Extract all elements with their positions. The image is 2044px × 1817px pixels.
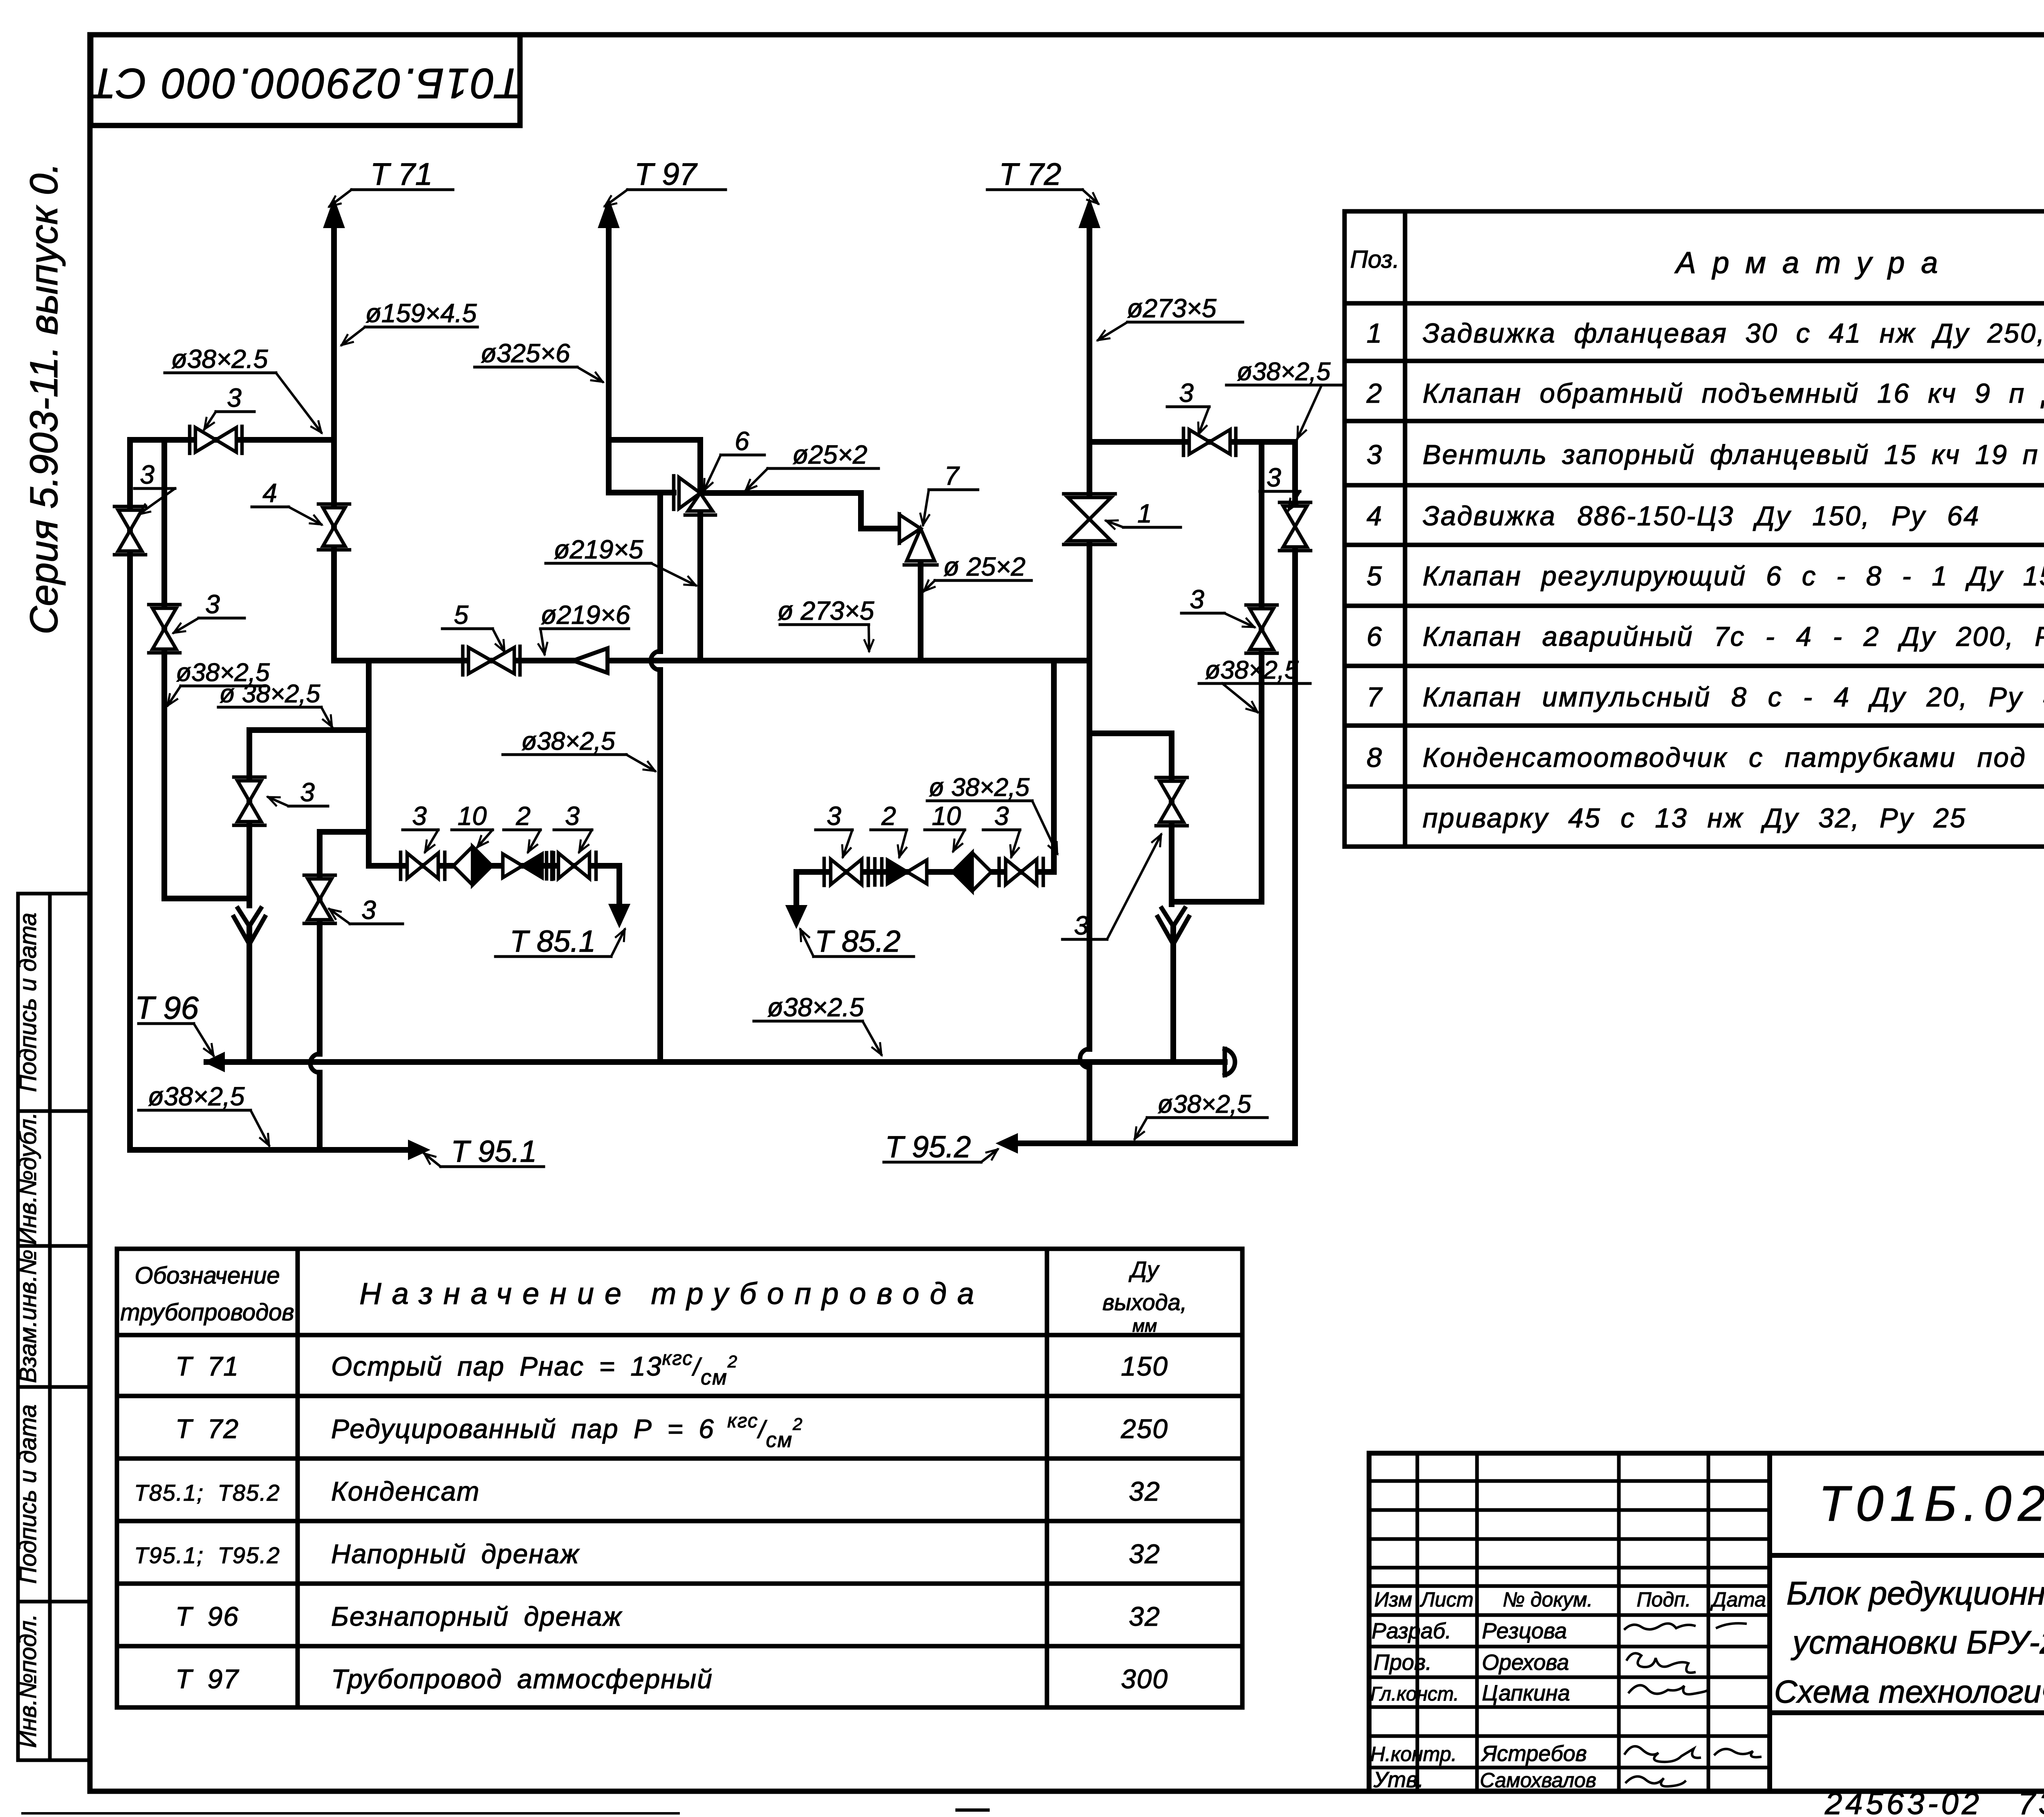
- svg-text:Вентиль запорный фланцевый 15: Вентиль запорный фланцевый 15 кч 19 п 1 …: [1423, 439, 2044, 470]
- svg-text:Серия 5.903-11. выпуск 0.: Серия 5.903-11. выпуск 0.: [22, 163, 66, 634]
- device 10 steam trap (diamond): [453, 847, 492, 885]
- svg-text:Т 95.1: Т 95.1: [451, 1134, 537, 1168]
- svg-text:3: 3: [1179, 378, 1194, 408]
- valve 3 callout: [1062, 835, 1161, 940]
- svg-text:№ докум.: № докум.: [1503, 1588, 1593, 1611]
- wire valve7 stem: [918, 565, 923, 661]
- svg-text:ø325×6: ø325×6: [481, 338, 570, 368]
- svg-text:Инв.№подл.: Инв.№подл.: [15, 1614, 41, 1748]
- svg-text:32: 32: [1129, 1476, 1160, 1506]
- wire T72 lower drop: [1087, 661, 1092, 1143]
- row Т97: [175, 1664, 1168, 1694]
- node T85.2 label: [800, 924, 914, 958]
- wire T97 riser: [609, 223, 674, 493]
- valve 3 callout (drain x782): [329, 895, 403, 925]
- svg-text:3: 3: [227, 383, 242, 412]
- svg-text:Клапан аварийный 7с - 4 - 2: Клапан аварийный 7с - 4 - 2 Ду 200, Ру 4…: [1423, 621, 2044, 652]
- svg-text:2: 2: [1366, 378, 1383, 409]
- pipe size ø 38×2,5 T85.2 drop: [927, 773, 1057, 854]
- svg-text:Т 97: Т 97: [175, 1664, 239, 1694]
- valve 7 callout: [923, 461, 978, 525]
- wire right drain drop x=3086: [1177, 442, 1262, 902]
- svg-text:1: 1: [1137, 499, 1152, 528]
- valve 5 callout: [442, 600, 504, 652]
- svg-text:5: 5: [454, 600, 468, 630]
- row 4: [1367, 501, 2044, 536]
- svg-text:Арматура: Арматура: [1674, 246, 1954, 280]
- svg-text:3: 3: [300, 777, 315, 807]
- svg-text:Клапан импульсный 8 с - 4: Клапан импульсный 8 с - 4 Ду 20, Ру 40: [1423, 682, 2044, 712]
- arrow T97 up: [599, 200, 619, 227]
- svg-text:Подп.: Подп.: [1636, 1588, 1691, 1611]
- signatures scribbles: [1625, 1623, 1760, 1786]
- pipe size ø325×6: [475, 338, 603, 382]
- svg-text:3: 3: [994, 801, 1009, 831]
- svg-text:Т 85.1: Т 85.1: [510, 924, 596, 958]
- pipe size ø273×5 main header: [778, 596, 874, 651]
- row Т72: [175, 1410, 1168, 1452]
- valve 3 (poz.3) globe (hourglass) at 782,2200: [304, 875, 335, 923]
- svg-text:5: 5: [1367, 561, 1383, 591]
- svg-text:Т 72: Т 72: [175, 1414, 239, 1444]
- svg-text:Клапан регулирующий 6 с - 8: Клапан регулирующий 6 с - 8 - 1 Ду 150, …: [1423, 561, 2044, 591]
- valve 3 callout: [983, 801, 1020, 857]
- svg-text:300: 300: [1121, 1664, 1168, 1694]
- node T96 label: [135, 990, 213, 1055]
- funnel left: [234, 917, 265, 944]
- valve 3 callout: [816, 801, 852, 857]
- svg-text:ø38×2,5: ø38×2,5: [1237, 358, 1331, 386]
- row 8 line 1: [1367, 742, 2026, 773]
- valve 3 callout: [1167, 378, 1209, 434]
- wire funnel outlet right: [1170, 929, 1176, 1062]
- svg-text:Т01Б.029000.000 СТ: Т01Б.029000.000 СТ: [87, 60, 522, 107]
- valve 4 callout: [252, 478, 321, 524]
- arrow T96 left: [205, 1053, 224, 1071]
- svg-text:4: 4: [1367, 501, 1383, 531]
- svg-text:Конденсат: Конденсат: [331, 1476, 480, 1506]
- svg-text:3: 3: [1266, 463, 1281, 492]
- svg-text:Т 96: Т 96: [175, 1601, 239, 1631]
- svg-text:Пров.: Пров.: [1374, 1650, 1432, 1675]
- svg-text:Взам.инв.№: Взам.инв.№: [15, 1250, 41, 1383]
- wire drain vertical x=610: [247, 730, 252, 905]
- svg-text:Изм: Изм: [1374, 1588, 1412, 1611]
- funnel arrow right: [1162, 908, 1185, 926]
- svg-text:3: 3: [412, 801, 427, 831]
- wire left drop x=318: [127, 440, 133, 1150]
- svg-text:Самохвалов: Самохвалов: [1480, 1769, 1596, 1792]
- svg-text:Трубопровод атмосферный: Трубопровод атмосферный: [331, 1664, 713, 1694]
- svg-text:Ястребов: Ястребов: [1481, 1741, 1587, 1766]
- check cone reducer on main header: [573, 648, 607, 673]
- valve 3 (poz.3) globe (hourglass) at 402,1538: [149, 605, 180, 653]
- pipe size ø38×2,5 top-right: [1226, 358, 1345, 438]
- wire drop x=902: [366, 661, 372, 866]
- valve 7 impulse valve (poz.7): [899, 514, 937, 565]
- PIPETABLE: [117, 1249, 1242, 1707]
- paper edge bottom: [22, 1812, 679, 1815]
- svg-text:Т 71: Т 71: [370, 157, 433, 192]
- row 3: [1367, 439, 2044, 470]
- valve 3 (poz.3) globe (hourglass) at 318,1298: [114, 506, 146, 555]
- valve 3 (poz.3) gate (bowtie) at 528,1076: [190, 426, 242, 453]
- svg-text:Н.контр.: Н.контр.: [1370, 1743, 1457, 1765]
- svg-text:Т 72: Т 72: [999, 157, 1061, 192]
- wire valve6 outlet: [697, 514, 703, 661]
- valve 3 callout: [204, 383, 254, 429]
- wire T72 riser: [1087, 223, 1092, 661]
- svg-text:Орехова: Орехова: [1482, 1650, 1569, 1675]
- svg-text:ø38×2.5: ø38×2.5: [767, 993, 864, 1022]
- left signature table grid: [1369, 1453, 1770, 1791]
- arrow T72 up: [1080, 200, 1099, 227]
- svg-text:ø38×2,5: ø38×2,5: [1205, 656, 1299, 684]
- wire T85.1 row y=2118: [369, 866, 619, 906]
- svg-text:Назначение трубопровода: Назначение трубопровода: [359, 1277, 985, 1311]
- svg-text:Обозначение: Обозначение: [134, 1262, 280, 1289]
- jump x=1615 over main header: [651, 651, 660, 670]
- valve 3 callout: [1260, 463, 1300, 510]
- svg-text:ø 38×2,5: ø 38×2,5: [929, 773, 1030, 802]
- svg-text:24563-02 73 Формат А3: 24563-02 73 Формат А3: [1824, 1786, 2044, 1817]
- svg-text:Схема технологическая: Схема технологическая: [1774, 1674, 2044, 1709]
- valve 1 callout: [1106, 499, 1181, 528]
- sig table header: [1374, 1588, 1766, 1611]
- svg-text:Цапкина: Цапкина: [1482, 1681, 1570, 1705]
- wire T85.2 row y=2133: [796, 872, 1054, 907]
- valve 3 (poz.3) gate (bowtie) at 1034,2118: [401, 852, 445, 879]
- svg-text:Клапан обратный подъемный 16 к: Клапан обратный подъемный 16 кч 9 п Ду 3…: [1423, 378, 2044, 409]
- wire funnel outlet left: [247, 928, 252, 1062]
- valve 6 callout: [704, 426, 764, 491]
- valve 3 callout: [1181, 585, 1254, 627]
- title block grid: [1369, 1453, 2044, 1791]
- svg-text:ø38×2,5: ø38×2,5: [148, 1082, 245, 1111]
- row Т95: [134, 1539, 1160, 1569]
- svg-text:Утв.: Утв.: [1373, 1768, 1424, 1792]
- svg-text:10: 10: [457, 801, 487, 831]
- svg-text:ø 273×5: ø 273×5: [778, 596, 874, 625]
- svg-text:ø 25×2: ø 25×2: [943, 552, 1025, 581]
- svg-text:150: 150: [1121, 1351, 1168, 1381]
- svg-text:Ду: Ду: [1128, 1257, 1160, 1282]
- wire drain x=1615: [657, 493, 663, 1062]
- valve 3 callout: [134, 460, 175, 514]
- pipe size ø38×2,5 left: [168, 659, 270, 706]
- arrow T95.1 right: [409, 1141, 428, 1159]
- svg-text:ø38×2,5: ø38×2,5: [521, 727, 615, 755]
- arrow T95.2 left: [997, 1134, 1017, 1152]
- wire T95.2 line: [1017, 1140, 1295, 1146]
- pipe size ø38×2,5 T95.1: [139, 1082, 269, 1145]
- ARMTABLE: [1345, 211, 2044, 847]
- svg-text:250: 250: [1121, 1414, 1168, 1444]
- svg-text:трубопроводов: трубопроводов: [120, 1299, 294, 1326]
- valve 3 (poz.3) gate (bowtie) at 2498,2133: [999, 858, 1043, 885]
- svg-text:4: 4: [262, 478, 277, 508]
- pipe size ø219×5: [546, 535, 696, 585]
- pipe size ø159×4.5: [342, 298, 477, 345]
- valve 3 (poz.3) globe (hourglass) at 610,1960: [234, 777, 265, 825]
- svg-text:6: 6: [1367, 621, 1383, 652]
- row 6: [1367, 615, 2044, 665]
- svg-text:Конденсатоотводчик с патрубк: Конденсатоотводчик с патрубками под: [1423, 742, 2026, 773]
- svg-text:ø219×5: ø219×5: [554, 535, 643, 564]
- svg-text:2: 2: [881, 801, 896, 831]
- svg-text:Т 95.2: Т 95.2: [885, 1130, 971, 1164]
- svg-text:2: 2: [515, 801, 531, 831]
- wire drain jog y=1786: [249, 727, 369, 733]
- svg-text:7: 7: [944, 461, 960, 491]
- svg-text:ø159×4.5: ø159×4.5: [365, 298, 477, 328]
- svg-text:Т85.1; Т85.2: Т85.1; Т85.2: [134, 1480, 280, 1506]
- svg-text:32: 32: [1129, 1539, 1160, 1569]
- svg-text:Т 85.2: Т 85.2: [815, 924, 901, 958]
- svg-text:Разраб.: Разраб.: [1372, 1619, 1451, 1643]
- row Т96: [175, 1601, 1161, 1631]
- svg-text:3: 3: [565, 801, 580, 831]
- wire valve6 bypass: [609, 440, 700, 493]
- pipe size ø38×2,5 T95.2: [1135, 1090, 1267, 1139]
- armature table grid: [1345, 211, 2044, 847]
- svg-text:ø38×2.5: ø38×2.5: [171, 344, 268, 374]
- valve 2 check valve (poz.2): [503, 853, 554, 879]
- svg-text:ø38×2,5: ø38×2,5: [1157, 1090, 1251, 1118]
- svg-text:Подпись и дата: Подпись и дата: [15, 1405, 41, 1584]
- svg-text:10: 10: [932, 801, 961, 831]
- arrow T85.1 down: [610, 905, 629, 926]
- node T71 label: [329, 157, 453, 206]
- svg-text:Напорный дренаж: Напорный дренаж: [331, 1539, 580, 1569]
- svg-text:мм: мм: [1132, 1316, 1157, 1336]
- node T95.1 label: [424, 1134, 544, 1168]
- svg-text:Т01Б.029 000. 000 СТ: Т01Б.029 000. 000 СТ: [1819, 1476, 2044, 1531]
- svg-text:ø273×5: ø273×5: [1127, 293, 1217, 323]
- header Ду выхода, мм: [1103, 1257, 1187, 1336]
- svg-text:Т95.1; Т95.2: Т95.1; Т95.2: [134, 1542, 280, 1568]
- svg-text:Гл.конст.: Гл.конст.: [1370, 1683, 1459, 1705]
- T96 end cap: [1225, 1049, 1235, 1075]
- wire T71 riser: [331, 223, 337, 661]
- pipe size ø25×2 stem: [924, 552, 1031, 591]
- row Т71: [175, 1348, 1168, 1389]
- svg-text:1: 1: [1367, 318, 1383, 349]
- wire T85.2 drop x=2578: [1051, 661, 1057, 872]
- device 10 callout: [452, 801, 493, 847]
- pipe size ø38×2,5 right-drain: [1199, 656, 1310, 712]
- svg-text:приварку 45 с 13 нж Ду 32,: приварку 45 с 13 нж Ду 32, Ру 25: [1423, 803, 1966, 833]
- wire main header y=1616: [334, 658, 1089, 663]
- svg-text:3: 3: [1074, 911, 1089, 940]
- jump x=782 over T96: [310, 1054, 320, 1073]
- svg-text:3: 3: [827, 801, 841, 831]
- wire right branch y=1081: [1089, 442, 1295, 504]
- svg-text:Задвижка фланцевая 30 с 41: Задвижка фланцевая 30 с 41 нж Ду 250, Ру…: [1423, 318, 2044, 349]
- svg-text:Блок редукционный: Блок редукционный: [1786, 1575, 2044, 1611]
- pipe size ø38×2.5 top-left: [165, 344, 321, 432]
- pipe size ø38×2,5 mid: [503, 727, 655, 771]
- svg-text:Безнапорный дренаж: Безнапорный дренаж: [331, 1601, 622, 1631]
- valve 3 callout: [403, 801, 438, 852]
- valve 4 (poz.4) globe (hourglass) at 817,1289: [318, 504, 350, 550]
- node T85.1 label: [495, 924, 625, 958]
- valve 1 gate (poz.1) globe (hourglass) at 2665,1270: [1064, 494, 1115, 544]
- pipe size ø273×5 riser: [1098, 293, 1243, 340]
- svg-text:установки БРУ-20: установки БРУ-20: [1791, 1624, 2044, 1660]
- device 10 callout: [925, 801, 965, 851]
- valve 3 callout (drain x610): [268, 777, 328, 807]
- TITLEBLOCK: [1369, 1453, 2044, 1817]
- pipe size ø219×6: [540, 600, 630, 654]
- sig rows: [1370, 1619, 1596, 1792]
- node T95.2 label: [884, 1130, 997, 1164]
- funnel right: [1158, 917, 1189, 944]
- valve 3 callout: [554, 801, 592, 852]
- svg-text:Т 97: Т 97: [634, 157, 698, 192]
- row 2: [1366, 378, 2044, 409]
- valve 3 (poz.3) globe (hourglass) at 2866,1961: [1156, 777, 1187, 826]
- valve 2 check valve (poz.2): [875, 859, 927, 885]
- node T97 label: [605, 157, 726, 206]
- svg-text:32: 32: [1129, 1601, 1160, 1631]
- node T72 label: [987, 157, 1098, 204]
- wire T95.1 branch jog y=2035: [320, 832, 369, 1150]
- valve 2 callout: [504, 801, 540, 852]
- svg-text:Задвижка 886-150-Ц3 Ду 15: Задвижка 886-150-Ц3 Ду 150, Ру 64: [1423, 501, 1980, 531]
- wire T96 line: [206, 1059, 1225, 1065]
- svg-text:Лист: Лист: [1420, 1588, 1474, 1611]
- svg-text:3: 3: [205, 589, 220, 619]
- wire left branch y=1076: [130, 437, 334, 443]
- row 5: [1367, 555, 2044, 605]
- row Т85: [134, 1476, 1160, 1506]
- arrow T71 up: [324, 200, 344, 227]
- svg-text:выхода,: выхода,: [1103, 1289, 1187, 1315]
- device 10 steam trap (diamond): [953, 853, 991, 891]
- svg-text:ø25×2: ø25×2: [792, 440, 867, 469]
- wire right drain branch y=1794: [1089, 733, 1172, 904]
- bottom edge tick: [957, 1808, 988, 1812]
- valve 3 (poz.3) globe (hourglass) at 3168,1288: [1280, 502, 1311, 551]
- valve 6 emergency angle valve (poz.6): [674, 476, 715, 515]
- row 1: [1367, 318, 2044, 349]
- svg-text:Т 71: Т 71: [175, 1351, 239, 1381]
- jump x=2665 over T96: [1080, 1049, 1089, 1068]
- pipe designation table grid: [117, 1249, 1242, 1707]
- svg-text:3: 3: [140, 460, 155, 489]
- wire impulse line ø25×2: [700, 493, 899, 529]
- funnel arrow left: [238, 908, 261, 926]
- row 8 line 2: [1423, 803, 2044, 833]
- valve 3 (poz.3) gate (bowtie) at 2959,1081: [1183, 428, 1236, 455]
- pipe size ø 38×2,5 jog: [218, 680, 332, 727]
- svg-text:3: 3: [1367, 439, 1383, 470]
- svg-text:3: 3: [1190, 585, 1204, 614]
- wire T95.1 line: [130, 1147, 409, 1153]
- svg-text:Инв.№дубл.: Инв.№дубл.: [15, 1112, 41, 1245]
- left stamp column: [18, 894, 90, 1760]
- svg-text:Дата: Дата: [1710, 1588, 1766, 1611]
- valve 3 (poz.3) gate (bowtie) at 1404,2118: [552, 852, 596, 879]
- svg-text:ø219×6: ø219×6: [541, 600, 630, 630]
- svg-text:3: 3: [361, 895, 376, 925]
- stamp box top-left (inverted doc number): [87, 35, 522, 125]
- svg-text:Поз.: Поз.: [1350, 246, 1400, 273]
- svg-text:8: 8: [1367, 742, 1383, 773]
- valve 5 (poz.5) gate (bowtie) at 1202,1616: [463, 646, 520, 675]
- wire right drop x=3168: [1292, 547, 1298, 1143]
- svg-text:Т 96: Т 96: [135, 990, 199, 1026]
- valve 3 callout: [174, 589, 244, 633]
- svg-text:7: 7: [1367, 682, 1383, 712]
- svg-text:Резцова: Резцова: [1482, 1619, 1567, 1643]
- svg-text:ø 38×2,5: ø 38×2,5: [220, 680, 320, 708]
- valve 2 callout: [871, 801, 907, 857]
- svg-text:Подпись и дата: Подпись и дата: [15, 913, 41, 1092]
- wire drop x=402 with drain elbow: [164, 440, 249, 898]
- header Обозначение трубопроводов: [120, 1262, 294, 1326]
- valve 3 (poz.3) gate (bowtie) at 2070,2133: [824, 858, 868, 885]
- row 7: [1367, 675, 2044, 725]
- arrow T85.2 down: [787, 906, 806, 927]
- svg-text:6: 6: [735, 426, 749, 456]
- pipe size ø38×2.5 T96: [754, 993, 881, 1055]
- valve 3 (poz.3) globe (hourglass) at 3086,1539: [1246, 605, 1277, 653]
- pipe size ø25×2 upper: [746, 440, 879, 491]
